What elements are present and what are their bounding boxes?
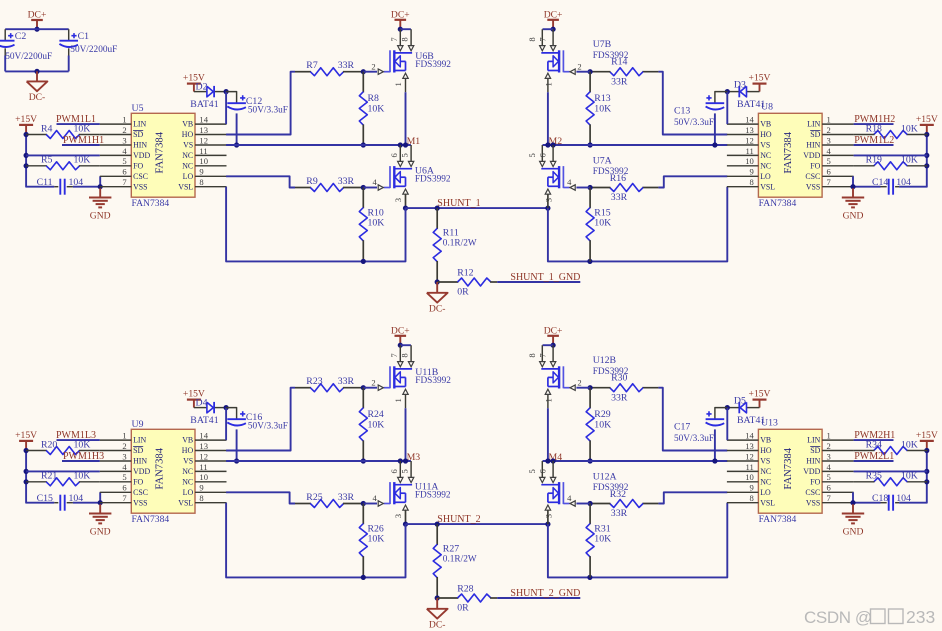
- svg-text:D3: D3: [734, 80, 746, 91]
- svg-text:33R: 33R: [338, 176, 355, 187]
- U6B drain pin lines: [400, 29, 411, 45]
- svg-text:R27: R27: [443, 544, 459, 555]
- svg-text:7: 7: [538, 353, 548, 358]
- wire +15V to D2 anode: [194, 91, 207, 93]
- svg-text:M3: M3: [407, 452, 421, 463]
- wire C12 to VS line: [236, 113, 238, 145]
- U8 pin 5 (FO) stub: [810, 156, 853, 170]
- U8 pin 13 (HO) stub: [727, 125, 772, 139]
- junction M4 / U12B source: [545, 458, 550, 463]
- svg-text:R28: R28: [457, 584, 473, 595]
- svg-text:SD: SD: [810, 446, 820, 455]
- net label PWM2H1 with wire (pin1 right): [854, 430, 896, 441]
- wire U6B source down to M1: [405, 92, 407, 145]
- junction D3/C13/VB: [725, 89, 730, 94]
- svg-text:7: 7: [389, 353, 399, 358]
- junction DC+ / U11B drains: [398, 343, 403, 348]
- resistor R10 10K gate pulldown: [359, 188, 384, 262]
- svg-text:FO: FO: [133, 477, 143, 486]
- U13 pin 6 (CSC) stub: [805, 483, 853, 497]
- wire junction to U11B gate: [363, 387, 377, 389]
- svg-text:33R: 33R: [338, 492, 355, 503]
- svg-text:C18: C18: [872, 493, 888, 504]
- svg-text:LIN: LIN: [807, 120, 820, 129]
- resistor R19 10K (pin5 right): [854, 155, 928, 170]
- svg-text:DC+: DC+: [544, 9, 563, 20]
- svg-text:10K: 10K: [901, 439, 918, 450]
- svg-text:1: 1: [827, 431, 831, 441]
- U5 pin 3 (HIN) stub: [100, 135, 148, 149]
- svg-text:CSC: CSC: [805, 172, 820, 181]
- svg-text:FDS3992: FDS3992: [415, 175, 451, 185]
- U11A gate pin 4: [372, 493, 390, 506]
- junction M1 / U6A drain: [398, 142, 403, 147]
- U12B gate pin 2: [563, 377, 581, 390]
- U11B drain pin numbers 7,8: [389, 353, 410, 358]
- U13 pin 5 (FO) stub: [810, 472, 853, 486]
- svg-text:13: 13: [745, 441, 754, 451]
- junction +15V rail / R5: [24, 163, 29, 168]
- diode D5 BAT41: [734, 396, 766, 426]
- svg-text:12: 12: [199, 451, 208, 461]
- svg-text:PWM1H3: PWM1H3: [63, 451, 104, 462]
- wire C17 to VS line right: [714, 429, 716, 461]
- svg-text:DC-: DC-: [429, 303, 446, 314]
- svg-text:14: 14: [199, 431, 208, 441]
- wire DC+ stub: [399, 20, 401, 29]
- U6B drain pin arrows: [398, 46, 414, 51]
- svg-text:LIN: LIN: [133, 436, 146, 445]
- svg-text:BAT41: BAT41: [190, 415, 218, 426]
- wire U12A source to shunt row: [547, 510, 549, 524]
- junction shunt / U7A source: [545, 206, 550, 211]
- wire bus capacitor loop bottom: [5, 70, 68, 72]
- svg-text:U9: U9: [132, 419, 144, 430]
- svg-text:7: 7: [389, 37, 399, 42]
- svg-text:10K: 10K: [368, 534, 385, 545]
- svg-text:VSS: VSS: [806, 182, 820, 191]
- U12A drain pin lines: [542, 461, 553, 477]
- U5 pin 12 (VS) stub: [183, 135, 226, 149]
- svg-text:R14: R14: [611, 56, 627, 67]
- svg-text:FDS3992: FDS3992: [415, 376, 451, 386]
- wire net M2 (VS row right): [543, 144, 728, 146]
- svg-text:10: 10: [199, 156, 208, 166]
- svg-text:8: 8: [199, 493, 203, 503]
- svg-text:LO: LO: [183, 488, 194, 497]
- junction D2/C12/VB: [224, 89, 229, 94]
- U6A drain pin arrows: [398, 161, 414, 166]
- svg-text:1: 1: [544, 82, 554, 86]
- U8 pin 11 (NC) stub: [727, 146, 771, 160]
- svg-text:5: 5: [400, 153, 410, 157]
- svg-text:3: 3: [827, 451, 831, 461]
- resistor R25 33R gate resistor: [295, 492, 363, 508]
- diode D3 BAT41: [734, 80, 766, 110]
- resistor R16 33R gate resistor: [590, 173, 658, 203]
- svg-text:9: 9: [199, 167, 203, 177]
- junction R9/R10 at gate: [361, 501, 366, 506]
- wire LO pin9 to R9: [226, 176, 295, 187]
- junction R16/R15 at gate: [588, 501, 593, 506]
- resistor R26 10K gate pulldown: [359, 504, 384, 578]
- U5 pin 14 (VB) stub: [182, 115, 226, 129]
- svg-text:U5: U5: [132, 103, 144, 114]
- U6B drain pin numbers 7,8: [389, 37, 410, 42]
- svg-text:2: 2: [577, 377, 581, 387]
- svg-text:11: 11: [199, 462, 207, 472]
- svg-text:1: 1: [393, 82, 403, 86]
- wire net M4 (VS row right): [543, 460, 728, 462]
- ground symbol GND left: [89, 188, 111, 221]
- svg-text:HO: HO: [760, 130, 772, 139]
- svg-text:7: 7: [538, 37, 548, 42]
- U5 pin 2 (SD) stub: [100, 125, 144, 139]
- wire DC+ stub right: [552, 336, 554, 345]
- diode D2 BAT41: [190, 81, 218, 110]
- wire junction down to VB pin 14: [225, 92, 227, 125]
- svg-text:14: 14: [745, 115, 754, 125]
- svg-text:C17: C17: [674, 421, 690, 432]
- svg-text:LO: LO: [183, 172, 194, 181]
- svg-text:13: 13: [745, 125, 754, 135]
- svg-text:50V/3.3uF: 50V/3.3uF: [248, 421, 288, 431]
- svg-text:DC+: DC+: [28, 9, 47, 20]
- power symbol +15V above D4: [183, 388, 205, 407]
- junction right rail / VDD wire: [924, 153, 929, 158]
- svg-text:LIN: LIN: [133, 120, 146, 129]
- svg-text:6: 6: [389, 152, 399, 157]
- junction C12 / VS: [234, 458, 239, 463]
- junction R8 bottom on M1 net: [361, 142, 366, 147]
- U5 pin 8 (VSL) stub: [178, 177, 226, 191]
- svg-text:VS: VS: [760, 457, 770, 466]
- svg-text:DC-: DC-: [429, 619, 446, 630]
- U9 pin 3 (HIN) stub: [100, 451, 148, 465]
- capacitor C13 50V/3.3uF polarized: [674, 95, 724, 128]
- U8 pin 2 (SD) stub: [810, 125, 853, 139]
- junction VSS / GND right: [850, 184, 855, 189]
- svg-text:2: 2: [577, 61, 581, 71]
- transistor U7B (FDS3992 MOSFET) body: [541, 50, 563, 72]
- svg-text:0R: 0R: [457, 603, 469, 614]
- svg-text:5: 5: [827, 156, 831, 166]
- junction R26 on bottom wire: [361, 575, 366, 580]
- U9 pin 1 (LIN) stub: [100, 431, 147, 445]
- U13 pin 4 (VDD) stub: [803, 462, 853, 476]
- svg-text:+15V: +15V: [749, 388, 771, 399]
- transistor U6B (FDS3992 MOSFET) body: [390, 50, 412, 72]
- svg-text:R11: R11: [443, 228, 459, 239]
- power symbol DC- below shunt: [427, 282, 448, 314]
- svg-text:10: 10: [199, 472, 208, 482]
- svg-text:NC: NC: [760, 161, 771, 170]
- svg-text:2: 2: [827, 125, 831, 135]
- svg-text:5: 5: [827, 472, 831, 482]
- svg-text:5: 5: [527, 153, 537, 157]
- wire VDD pin4 to rail: [26, 470, 100, 472]
- resistor R14 33R gate resistor: [590, 56, 658, 87]
- svg-text:CSC: CSC: [133, 488, 148, 497]
- junction D2/C12/VB: [224, 405, 229, 410]
- U7B gate pin 2: [563, 61, 581, 74]
- U5 pin 6 (CSC) stub: [100, 167, 148, 181]
- svg-text:U12A: U12A: [593, 472, 617, 483]
- resistor R21 10K (pin5): [26, 471, 100, 486]
- U9 pin 10 (NC) stub: [182, 472, 226, 486]
- svg-text:4: 4: [827, 462, 832, 472]
- svg-text:50V/3.3uF: 50V/3.3uF: [674, 118, 714, 128]
- junction DC+ / U6B drains: [398, 27, 403, 32]
- svg-text:11: 11: [199, 146, 207, 156]
- svg-text:BAT41: BAT41: [190, 99, 218, 110]
- svg-text:+15V: +15V: [916, 114, 938, 125]
- wire junction to capacitor C13: [715, 92, 727, 104]
- svg-text:SHUNT_2_GND: SHUNT_2_GND: [510, 588, 580, 599]
- svg-text:10K: 10K: [594, 534, 611, 545]
- junction R7/R8 at gate: [361, 69, 366, 74]
- svg-text:C11: C11: [37, 177, 53, 188]
- U12B drain pin numbers 7,8: [527, 353, 548, 358]
- svg-text:FAN7384: FAN7384: [783, 447, 794, 489]
- svg-text:2: 2: [827, 441, 831, 451]
- wire +15V to D4 anode: [194, 407, 207, 409]
- U13 pin 9 (LO) stub: [727, 483, 771, 497]
- wire HO U13 to R30: [658, 388, 727, 451]
- svg-text:FAN7384: FAN7384: [783, 131, 794, 173]
- svg-text:6: 6: [827, 483, 832, 493]
- svg-text:PWM2L1: PWM2L1: [854, 451, 894, 462]
- U8 pin 6 (CSC) stub: [805, 167, 853, 181]
- wire net SHUNT_1: [406, 207, 548, 209]
- U13 pin 13 (HO) stub: [727, 441, 772, 455]
- resistor R8 10K gate pulldown: [359, 72, 384, 145]
- power symbol +15V at left rail: [15, 430, 37, 451]
- U5 pin 11 (NC) stub: [182, 146, 226, 160]
- junction C13 / VS right: [712, 458, 717, 463]
- svg-text:50V/3.3uF: 50V/3.3uF: [674, 434, 714, 444]
- power symbol +15V at right rail: [916, 430, 938, 451]
- U7B drain pin lines: [542, 29, 553, 45]
- wire C13 to VS line right: [714, 113, 716, 145]
- junction +15V rail / R5: [24, 479, 29, 484]
- svg-text:4: 4: [567, 493, 572, 503]
- svg-text:3: 3: [393, 514, 403, 518]
- svg-text:PWM1L2: PWM1L2: [854, 135, 894, 146]
- svg-text:VSL: VSL: [760, 498, 775, 507]
- wire D5 cathode to junction: [727, 407, 738, 409]
- svg-text:+15V: +15V: [749, 72, 771, 83]
- svg-text:FDS3992: FDS3992: [415, 60, 451, 70]
- transistor U11B (FDS3992 MOSFET) body: [390, 366, 412, 388]
- svg-text:6: 6: [122, 167, 127, 177]
- wire VDD pin4 right to rail: [854, 470, 928, 472]
- svg-text:GND: GND: [90, 210, 111, 221]
- net label SHUNT_2_GND with wire: [497, 588, 580, 599]
- wire junction to U12A gate: [576, 503, 590, 505]
- svg-text:R21: R21: [41, 471, 57, 482]
- svg-text:8: 8: [527, 353, 537, 357]
- svg-text:CSDN @: CSDN @: [804, 608, 872, 627]
- junction U6A source / shunt: [403, 206, 408, 211]
- wire DC+ stub: [399, 336, 401, 345]
- U13 pin 14 (VB) stub: [727, 431, 771, 445]
- svg-text:9: 9: [750, 483, 754, 493]
- power symbol +15V at left rail: [15, 114, 37, 135]
- svg-text:6: 6: [389, 468, 399, 473]
- svg-text:SHUNT_1: SHUNT_1: [437, 198, 480, 209]
- junction right rail / R18: [924, 448, 929, 453]
- svg-text:FDS3992: FDS3992: [593, 167, 629, 177]
- resistor R12 0R: [437, 268, 497, 298]
- junction right rail / R19: [924, 163, 929, 168]
- resistor R32 33R gate resistor: [590, 489, 658, 519]
- svg-text:8: 8: [400, 37, 410, 41]
- wire net M3 (VS row): [226, 460, 411, 462]
- svg-text:DC+: DC+: [391, 325, 410, 336]
- U11B drain pin lines: [400, 345, 411, 361]
- svg-text:10K: 10K: [74, 155, 91, 166]
- op-amp U13 FAN7384 gate driver IC body: [758, 429, 822, 513]
- U8 pin 10 (NC) stub: [727, 156, 771, 170]
- svg-text:VB: VB: [182, 436, 193, 445]
- junction M4 / U12A drain: [551, 458, 556, 463]
- svg-text:6: 6: [122, 483, 127, 493]
- wire junction to U7B gate: [576, 71, 590, 73]
- svg-text:VSL: VSL: [760, 182, 775, 191]
- U7A drain pin arrows: [540, 161, 556, 166]
- junction R14/R13 at gate: [588, 385, 593, 390]
- svg-text:233: 233: [906, 607, 935, 627]
- svg-text:R30: R30: [611, 372, 627, 383]
- svg-text:4: 4: [372, 493, 377, 503]
- junction U11A source / shunt: [403, 522, 408, 527]
- U9 pin 12 (VS) stub: [183, 451, 226, 465]
- junction DC+ / U7B drains: [551, 27, 556, 32]
- U7B drain pin numbers 7,8: [527, 37, 548, 42]
- svg-text:10K: 10K: [594, 218, 611, 229]
- resistor R24 10K gate pulldown: [359, 388, 384, 461]
- svg-text:13: 13: [199, 441, 208, 451]
- wire bus capacitor loop top: [5, 28, 68, 30]
- net label PWM1H3 with wire (pin3): [62, 451, 104, 462]
- wire VDD pin4 to rail: [26, 154, 100, 156]
- wire HO pin13 to R7: [226, 72, 295, 135]
- svg-text:33R: 33R: [338, 60, 355, 71]
- svg-text:+15V: +15V: [916, 430, 938, 441]
- U12B designator and type labels: [593, 355, 629, 377]
- svg-text:50V/3.3uF: 50V/3.3uF: [248, 105, 288, 115]
- junction DC+ / C1 / C2: [34, 27, 39, 32]
- svg-text:2: 2: [371, 377, 375, 387]
- U13 pin 11 (NC) stub: [727, 462, 771, 476]
- net label PWM1L3 with wire (pin1): [56, 430, 100, 441]
- U8 pin 1 (LIN) stub: [807, 115, 853, 129]
- svg-text:R19: R19: [866, 155, 882, 166]
- power symbol DC+ above U11B: [391, 325, 410, 336]
- U9 pin 2 (SD) stub: [100, 441, 144, 455]
- svg-text:10: 10: [745, 156, 754, 166]
- junction R16/R15 at gate: [588, 185, 593, 190]
- svg-text:HIN: HIN: [806, 457, 820, 466]
- svg-text:2: 2: [122, 125, 126, 135]
- junction VSS / GND right: [850, 500, 855, 505]
- junction R14/R13 at gate: [588, 69, 593, 74]
- svg-text:FAN7384: FAN7384: [132, 514, 170, 525]
- svg-text:FAN7384: FAN7384: [132, 198, 170, 209]
- U6A drain pin lines: [400, 145, 411, 161]
- U6B designator and type labels: [415, 51, 451, 70]
- power symbol DC- below shunt: [427, 598, 448, 630]
- transistor U6A (FDS3992 MOSFET) body: [390, 166, 412, 188]
- U13 pin 2 (SD) stub: [810, 441, 853, 455]
- junction +15V rail / R4: [24, 448, 29, 453]
- svg-text:SHUNT_1_GND: SHUNT_1_GND: [510, 272, 580, 283]
- U11A source pin 3: [393, 505, 408, 524]
- svg-text:8: 8: [199, 177, 203, 187]
- U9 pin 8 (VSL) stub: [178, 493, 226, 507]
- U6A designator and type labels: [415, 166, 451, 185]
- wire VSL U5 down and along bottom to U6A source node: [226, 187, 405, 262]
- wire DC+ junction to U6B drain pin 8: [400, 28, 411, 30]
- svg-text:DC-: DC-: [29, 92, 46, 103]
- svg-text:HIN: HIN: [133, 141, 147, 150]
- junction R24 bottom on M3 net: [361, 458, 366, 463]
- U5 pin 13 (HO) stub: [182, 125, 227, 139]
- wire junction to U6B gate: [363, 71, 377, 73]
- U12A drain pin arrows: [540, 477, 556, 482]
- wire junction to capacitor C12: [226, 92, 237, 104]
- U5 pin 9 (LO) stub: [183, 167, 227, 181]
- svg-text:D5: D5: [734, 396, 746, 407]
- svg-text:1: 1: [122, 431, 126, 441]
- svg-text:NC: NC: [182, 151, 193, 160]
- diode D4 BAT41: [190, 397, 218, 426]
- svg-text:C14: C14: [872, 177, 888, 188]
- svg-text:1: 1: [544, 398, 554, 402]
- power symbol DC+ above U12B: [544, 325, 563, 336]
- U8 pin 9 (LO) stub: [727, 167, 771, 181]
- junction M1 / U6B source: [403, 142, 408, 147]
- transistor U11A (FDS3992 MOSFET) body: [390, 482, 412, 504]
- svg-text:10K: 10K: [901, 471, 918, 482]
- svg-text:13: 13: [199, 125, 208, 135]
- svg-text:VSS: VSS: [133, 182, 147, 191]
- resistor R31 10K gate pulldown: [586, 504, 611, 578]
- wire +15V right rail: [899, 135, 927, 187]
- U5 pin 7 (VSS) stub: [100, 177, 148, 191]
- wire LO U13 to R32: [658, 492, 727, 503]
- svg-text:10K: 10K: [368, 103, 385, 114]
- svg-text:5: 5: [527, 469, 537, 473]
- U8 pin 7 (VSS) stub: [806, 177, 854, 191]
- wire junction to U6A gate: [363, 187, 377, 189]
- U11A drain pin numbers 6,5: [389, 468, 410, 473]
- svg-text:BAT41: BAT41: [737, 415, 765, 426]
- svg-text:104: 104: [69, 493, 84, 504]
- svg-text:VDD: VDD: [803, 151, 820, 160]
- svg-text:1: 1: [827, 115, 831, 125]
- wire D2 cathode to junction: [215, 91, 226, 93]
- power symbol +15V above D5: [749, 388, 771, 407]
- capacitor C2 50V/2200uF electrolytic: [0, 29, 52, 71]
- svg-text:VB: VB: [760, 436, 771, 445]
- svg-text:R25: R25: [306, 492, 322, 503]
- wire junction down to VB pin 14 right: [726, 408, 728, 441]
- capacitor C12 50V/3.3uF polarized: [227, 95, 288, 115]
- power symbol +15V at right rail: [916, 114, 938, 135]
- wire +15V to D5 anode: [747, 407, 760, 409]
